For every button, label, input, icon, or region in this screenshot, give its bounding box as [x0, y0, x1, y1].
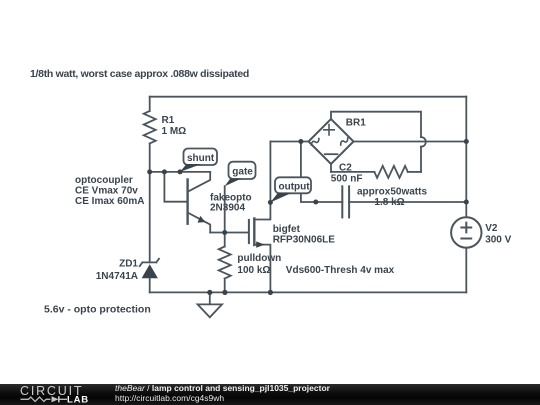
svg-text:BR1: BR1 [346, 117, 366, 128]
annotation text 1/8th watt [30, 68, 249, 80]
bridge rectifier BR1 [309, 119, 354, 164]
circuitlab logo [0, 382, 110, 405]
wire left vertical bottom [149, 278, 151, 292]
svg-text:1 MΩ: 1 MΩ [162, 126, 187, 137]
svg-text:bigfet: bigfet [273, 224, 301, 235]
svg-text:CE Imax 60mA: CE Imax 60mA [75, 196, 144, 207]
svg-text:gate: gate [232, 167, 253, 178]
label Vds600-Thresh 4v max [286, 265, 395, 276]
node flag output [270, 177, 311, 202]
label approx50watts 1.8 kΩ [357, 187, 427, 208]
node dot BR1 left branch [298, 139, 303, 144]
node dot right rail upper [464, 139, 469, 144]
svg-text:1/8th watt, worst case approx: 1/8th watt, worst case approx .088w diss… [30, 68, 249, 80]
footer bar [0, 384, 540, 405]
wire gate horizontal [210, 232, 249, 234]
svg-text:V2: V2 [485, 223, 498, 234]
wire C2 to right rail [349, 201, 466, 203]
resistor pulldown 100k [219, 233, 231, 293]
mosfet M1 bigfet RFP30N06LE [249, 142, 271, 293]
label R1 1 MΩ [162, 115, 187, 137]
wire BR1 right vertex to right rail [354, 141, 467, 143]
svg-text:5.6v - opto protection: 5.6v - opto protection [44, 303, 151, 315]
node dot base branch [162, 169, 167, 174]
svg-text:ZD1: ZD1 [119, 258, 138, 269]
svg-text:pulldown: pulldown [237, 253, 281, 264]
node flag shunt [180, 149, 217, 172]
label C2 500 nF [331, 162, 363, 184]
resistor R1 [144, 111, 156, 143]
svg-text:2N3904: 2N3904 [210, 203, 245, 214]
svg-text:1.8 kΩ: 1.8 kΩ [374, 197, 404, 208]
resistor 1.8k approx50watts [331, 164, 421, 178]
wire left vertical middle [149, 143, 151, 262]
node flag gate [225, 162, 256, 187]
wire BR1 left vertex to output node [270, 141, 308, 143]
svg-text:300 V: 300 V [485, 234, 511, 245]
ground symbol [198, 292, 222, 317]
wire middle horizontal (shunt node) [150, 171, 211, 173]
node dot C2 run [313, 200, 318, 205]
capacitor C2 [342, 186, 349, 217]
svg-text:CE Vmax 70v: CE Vmax 70v [75, 186, 138, 197]
svg-text:R1: R1 [162, 115, 175, 126]
wire right vertical top [465, 97, 467, 218]
label bigfet RFP30N06LE [273, 224, 336, 246]
wire right vertical bottom [465, 248, 467, 293]
svg-text:optocoupler: optocoupler [75, 175, 133, 186]
voltage source V2 [451, 217, 481, 247]
label BR1 [346, 117, 366, 128]
zener diode ZD1 [140, 259, 159, 279]
label pulldown 100 kΩ [237, 253, 281, 276]
node dot shunt anchor [178, 169, 183, 174]
node dot left mid [147, 169, 152, 174]
wire hop continue down [420, 147, 422, 172]
svg-text:LAB: LAB [67, 395, 89, 405]
wire left vertical top (R1 top lead) [149, 97, 151, 111]
node dot gate junction [222, 230, 227, 235]
junction dots [147, 139, 469, 295]
svg-text:1N4741A: 1N4741A [96, 271, 138, 282]
label fakeopto 2N3904 [210, 192, 252, 213]
svg-text:500 nF: 500 nF [331, 174, 363, 185]
wire bottom horizontal [150, 291, 467, 293]
node dot output anchor [268, 200, 273, 205]
svg-text:shunt: shunt [187, 153, 215, 164]
label V2 300 V [485, 223, 511, 246]
node dot pulldown bottom [222, 290, 227, 295]
svg-text:Vds600-Thresh 4v max: Vds600-Thresh 4v max [286, 265, 395, 276]
wire base L [164, 172, 187, 202]
wire hop over [421, 137, 426, 147]
svg-text:output: output [279, 182, 311, 193]
transistor Q1 fakeopto 2N3904 [188, 172, 211, 233]
svg-text:100 kΩ: 100 kΩ [237, 265, 270, 276]
wire gate label stub [224, 186, 226, 232]
wire BR1 top loop [331, 112, 421, 137]
label 5.6v opto protection [44, 303, 151, 315]
wire top horizontal [150, 96, 467, 98]
label optocoupler block [75, 175, 144, 207]
node dot source bottom [268, 290, 273, 295]
node dot right rail lower [464, 200, 469, 205]
svg-text:RFP30N06LE: RFP30N06LE [273, 234, 336, 245]
wire branch down to C2 run [301, 142, 342, 203]
label ZD1 1N4741A [96, 258, 139, 282]
node dot ground [207, 290, 212, 295]
